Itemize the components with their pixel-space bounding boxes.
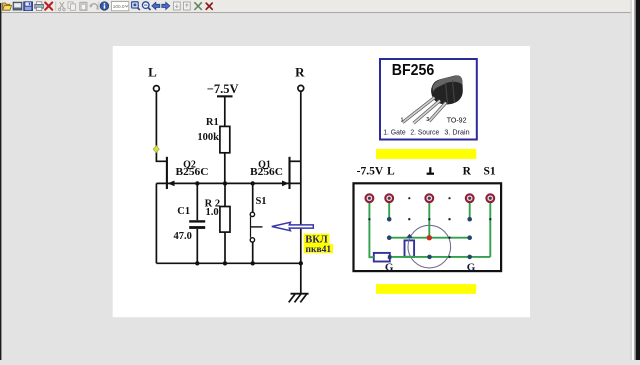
svg-text:1. Gate: 1. Gate — [383, 128, 406, 137]
svg-text:B256C: B256C — [250, 167, 283, 178]
board pin label ground — [427, 167, 434, 175]
wire to ground — [300, 263, 302, 293]
svg-text:3. Drain: 3. Drain — [444, 128, 469, 137]
terminal R — [466, 194, 474, 202]
junction dot R1 R2 — [223, 181, 227, 185]
yellow highlight bar bottom — [376, 284, 476, 294]
junction dot C1 top — [195, 181, 199, 185]
BF256 title — [392, 62, 435, 79]
wire R terminal down right loop edge — [300, 91, 302, 263]
svg-text:R: R — [295, 65, 305, 80]
svg-text:S1: S1 — [484, 166, 496, 178]
switch S1 actuator — [251, 226, 263, 228]
toolbar icon previous — [152, 2, 160, 9]
terminal S1 — [486, 194, 494, 202]
gate bus wire with source leads — [156, 182, 300, 184]
terminal L — [154, 86, 160, 92]
board wire center column — [428, 202, 430, 238]
toolbar icon print — [35, 2, 44, 11]
pin names 1.Gate 2.Source 3.Drain — [383, 128, 469, 137]
toolbar icon copy disabled — [68, 2, 75, 10]
junction dot C1 bottom — [195, 261, 199, 265]
label VKL highlight — [304, 234, 330, 246]
capacitor C1 — [189, 220, 205, 229]
wire gate bus to C1 — [196, 183, 198, 220]
R2 ref label — [205, 198, 220, 209]
wire L terminal to Q2 drain — [156, 92, 167, 162]
toolbar icon zoom out — [142, 2, 150, 10]
board junction square — [388, 255, 392, 259]
svg-text:BF256: BF256 — [392, 62, 435, 79]
resistor R1 — [220, 126, 230, 152]
toolbar icon page next disabled — [183, 2, 190, 10]
toolbar separator line — [0, 12, 640, 13]
board resistor horizontal — [374, 253, 390, 262]
board label G left — [385, 262, 394, 274]
board resistor vertical — [405, 240, 415, 256]
svg-text:R: R — [463, 166, 472, 178]
TO-92 package body — [431, 75, 463, 104]
toolbar icon acquire — [13, 2, 22, 10]
junction dot R2 bottom — [223, 261, 227, 265]
toolbar icon zoom in — [132, 2, 140, 10]
board wire bottom row — [390, 256, 490, 258]
svg-text:-7.5V: -7.5V — [357, 166, 384, 178]
svg-text:R1: R1 — [206, 117, 219, 128]
R2 value 1.0 — [205, 207, 218, 218]
toolbar icon page prev disabled — [173, 2, 180, 10]
board solder dot gate row right — [467, 235, 472, 240]
board wire L column — [388, 202, 390, 219]
wire R1 to gate bus — [224, 153, 226, 184]
power rail bar — [217, 95, 233, 97]
svg-text:G: G — [467, 262, 476, 274]
toolbar icon undo disabled — [89, 4, 97, 10]
label pkv41 highlight — [304, 244, 333, 255]
svg-text:100k: 100k — [197, 132, 219, 143]
Q1 type B256C — [250, 167, 283, 178]
toolbar icon settings — [195, 3, 202, 10]
toolbar icon cut disabled — [58, 2, 65, 11]
TO-92 leg 2 — [414, 101, 441, 124]
toolbar icon exit — [206, 3, 212, 9]
svg-text:ВКЛ: ВКЛ — [305, 234, 328, 245]
TO-92 leg 1 — [403, 98, 435, 123]
board solder dot bottom right — [467, 255, 472, 260]
wire -7.5V to R1 — [224, 97, 226, 126]
board pin label -7.5V — [357, 166, 496, 178]
svg-text:100.0: 100.0 — [113, 4, 125, 9]
Q2 type B256C — [176, 167, 209, 178]
transistor Q1 channel — [288, 157, 290, 189]
junction dot S1 bottom — [251, 261, 255, 265]
window left edge — [0, 3, 1, 360]
board wire -7.5V column — [369, 202, 373, 257]
svg-text:C1: C1 — [177, 206, 190, 217]
svg-text:B256C: B256C — [176, 167, 209, 178]
board label G right — [467, 262, 476, 274]
wire gate bus to S1 — [252, 183, 254, 212]
svg-text:3: 3 — [426, 117, 429, 123]
pin mark 3 — [426, 117, 429, 123]
board transistor circle — [408, 225, 451, 268]
pin mark 1 — [401, 118, 404, 124]
board solder dot bottom center — [427, 255, 432, 260]
svg-text:L: L — [148, 65, 157, 80]
svg-text:2. Source: 2. Source — [410, 128, 439, 137]
svg-text:1: 1 — [401, 118, 404, 124]
toolbar icon paste disabled — [80, 2, 87, 11]
pointer arrow to S1 — [272, 222, 314, 230]
wire R2 to bottom bus — [224, 232, 226, 263]
wire left loop edge — [155, 183, 157, 263]
window right scroll strip — [631, 0, 632, 360]
svg-text:TO-92: TO-92 — [447, 115, 467, 124]
toolbar icon next — [162, 2, 170, 9]
board source red dot — [427, 235, 432, 240]
white drawing canvas — [113, 46, 530, 317]
board solder dot R — [467, 217, 472, 222]
toolbar icon save — [24, 2, 33, 11]
TO-92 leg 3 — [429, 103, 446, 122]
junction dot S1 top — [251, 181, 255, 185]
switch S1 top contact — [250, 212, 254, 216]
svg-text:пкв41: пкв41 — [306, 245, 332, 255]
ground — [289, 294, 309, 303]
junction dot ground node — [299, 261, 303, 265]
wire gate bus to R2 — [224, 183, 226, 206]
board solder dot L — [387, 217, 392, 222]
terminal R — [298, 85, 304, 91]
wire C1 to bottom bus — [196, 229, 198, 263]
wire Q1 drain jog — [290, 160, 301, 162]
board solder dot gate row left — [387, 235, 392, 240]
C1 ref label — [177, 206, 190, 217]
toolbar icon open — [3, 3, 12, 10]
board hole dots — [368, 197, 491, 258]
svg-text:L: L — [387, 166, 395, 178]
svg-text:S1: S1 — [255, 196, 266, 207]
wire S1 to bottom bus — [252, 242, 254, 263]
board wire gate row — [389, 237, 470, 239]
switch S1 bottom contact — [250, 238, 254, 242]
C1 value 47.0 — [174, 231, 192, 242]
svg-text:47.0: 47.0 — [174, 231, 192, 242]
transistor Q2 gate arrow — [168, 181, 175, 187]
node L label — [148, 65, 157, 80]
svg-text:−7.5V: −7.5V — [207, 82, 239, 96]
resistor R2 — [220, 207, 230, 233]
node R label — [295, 65, 305, 80]
toolbar icon info — [100, 2, 109, 11]
TO-92 label — [447, 115, 467, 124]
toolbar background — [0, 0, 640, 12]
wire bottom bus — [156, 262, 300, 264]
R1 value 100k — [197, 132, 219, 143]
yellow highlight bar top — [376, 149, 476, 159]
toolbar icon delete — [45, 3, 52, 10]
svg-text:G: G — [385, 262, 394, 274]
window right black edge — [636, 0, 640, 360]
transistor Q2 channel — [166, 157, 168, 189]
cursor marker on L wire — [153, 146, 159, 153]
terminal -7.5V — [366, 194, 374, 202]
power label -7.5V — [207, 82, 239, 96]
R1 ref label — [206, 117, 219, 128]
board wire R column — [469, 202, 471, 219]
Q1 ref label — [258, 160, 271, 171]
terminal L — [385, 194, 393, 202]
Q2 ref label — [183, 160, 196, 171]
switch S1 blade — [250, 217, 252, 238]
S1 ref label — [255, 196, 266, 207]
board wire S1 column — [489, 202, 491, 257]
terminal board outline — [354, 183, 502, 271]
toolbar separator — [98, 2, 99, 11]
BF256 datasheet box — [380, 59, 477, 140]
svg-text:1.0: 1.0 — [205, 207, 218, 218]
terminal ground — [425, 194, 433, 202]
toolbar zoom combobox — [111, 2, 128, 11]
toolbar separator — [55, 2, 56, 11]
transistor Q1 gate arrow — [282, 181, 289, 187]
board junction triangle — [406, 234, 412, 238]
